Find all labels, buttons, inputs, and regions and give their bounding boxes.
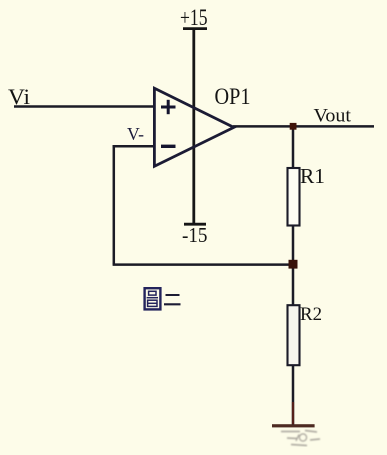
svg-text:+15: +15	[180, 5, 208, 30]
svg-text:Vout: Vout	[314, 106, 352, 127]
svg-text:V-: V-	[127, 124, 144, 144]
svg-text:Vi: Vi	[8, 84, 30, 109]
svg-text:R2: R2	[300, 304, 322, 325]
svg-text:-15: -15	[182, 223, 208, 247]
svg-text:OP1: OP1	[215, 84, 251, 109]
svg-text:R1: R1	[300, 164, 325, 188]
